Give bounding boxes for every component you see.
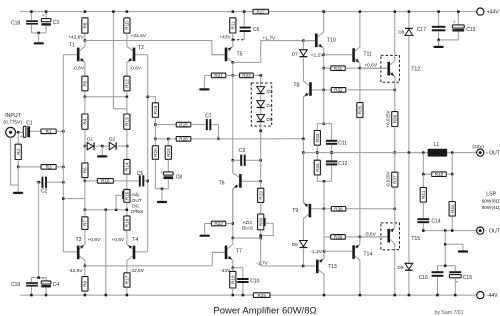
junction L1 right / R42 column	[451, 151, 454, 154]
diode D5	[257, 115, 265, 123]
svg-text:LSP: LSP	[486, 192, 496, 198]
svg-text:T6: T6	[219, 180, 225, 186]
svg-text:Power Amplifier 60W/8Ω: Power Amplifier 60W/8Ω	[213, 306, 316, 316]
wire jack to C1	[16, 131, 24, 133]
svg-text:R6: R6	[83, 167, 88, 173]
svg-text:R29: R29	[258, 191, 263, 200]
svg-text:D3: D3	[266, 89, 272, 95]
wire R31 row to T12 base	[360, 67, 388, 69]
junction R38 row left	[323, 208, 326, 211]
wire output rail after L1	[447, 152, 476, 154]
wire column down to jog	[84, 181, 86, 199]
svg-text:R21: R21	[214, 73, 223, 78]
wire R10 to T2 collector	[126, 33, 128, 46]
capacitor C4	[41, 276, 51, 295]
label Adj. OUT DC Offset	[131, 192, 144, 215]
junction R22 row	[232, 222, 235, 225]
wire T8/T9 emitter link	[302, 139, 304, 153]
ground below R2	[13, 192, 23, 194]
wire D6 to -1.7V row	[302, 249, 304, 267]
svg-text:R22: R22	[214, 221, 223, 226]
junction below diode box	[259, 130, 262, 133]
resistor R37 output sense -	[394, 153, 396, 173]
junction T15 emitter / R37 bottom	[394, 208, 397, 211]
svg-text:R24: R24	[166, 148, 171, 157]
wire T1 collector node to T5 base	[85, 41, 225, 55]
svg-text:+42,6V: +42,6V	[131, 33, 147, 39]
svg-text:T9: T9	[292, 208, 298, 214]
junction T5 collector node	[232, 61, 235, 64]
junction ground tap on C15/C16 column	[444, 243, 447, 246]
junction R3 / input column	[62, 166, 65, 169]
resistor R41	[422, 174, 424, 187]
junction C2 right on input column	[62, 181, 65, 184]
svg-text:C17: C17	[417, 27, 426, 33]
junction R33/C11 tee	[322, 123, 325, 126]
svg-text:T8: T8	[293, 83, 299, 89]
wire ground tap	[445, 243, 463, 245]
junction T14 emitter / R39	[359, 236, 362, 239]
junction input node	[62, 130, 65, 133]
junction R13 feed on top rail	[112, 10, 115, 13]
junction T14 collector on bottom rail	[359, 294, 362, 297]
svg-text:OUT: OUT	[489, 229, 500, 235]
capacitor C9	[233, 155, 261, 166]
diode D7	[300, 50, 308, 58]
svg-text:R10: R10	[125, 21, 130, 30]
wire joining R20/C8 bottoms	[155, 188, 168, 190]
resistor R13	[124, 114, 130, 129]
wire R16 to T4 emitter	[126, 230, 128, 244]
svg-text:R12: R12	[125, 79, 130, 88]
resistor R36 output sense +	[394, 90, 396, 112]
wire R31 column down to R32 row	[323, 68, 325, 90]
wire C5 to feedback column	[144, 180, 147, 182]
capacitor C19	[26, 278, 38, 296]
resistor R29	[260, 181, 262, 188]
resistor R4	[84, 97, 86, 114]
svg-text:T15: T15	[411, 236, 420, 242]
svg-text:R23: R23	[242, 73, 251, 78]
tee wires R34/C12 to column	[317, 165, 331, 181]
wire D7 to T8 collector	[302, 58, 304, 79]
svg-text:C4: C4	[53, 282, 60, 288]
junction R42 on -OUT row	[451, 229, 454, 232]
junction R31 left tee	[322, 67, 325, 70]
junction R34/C12 tee	[323, 180, 326, 183]
resistor R42	[451, 174, 453, 201]
wire R30 to wiper junction	[260, 230, 262, 238]
wire R19 column to R26 row	[154, 125, 156, 139]
junction D8 on output rail	[408, 151, 411, 154]
svg-text:C8: C8	[176, 175, 183, 181]
capacitor C16	[432, 266, 444, 295]
resistor R6	[84, 146, 86, 163]
transistor T1 base wire	[63, 54, 77, 56]
transistor T2	[127, 46, 135, 76]
junction R19b on bottom rail	[232, 294, 235, 297]
resistor R14	[126, 146, 128, 159]
svg-text:R40: R40	[435, 172, 444, 177]
svg-text:-1,2V: -1,2V	[310, 249, 322, 255]
transistor T4 base wire	[135, 251, 147, 253]
resistor R32	[324, 89, 332, 91]
wire R39 row to T15 base	[360, 236, 388, 238]
resistor R10	[124, 18, 130, 33]
junction C4 on bottom rail	[45, 294, 48, 297]
wire R15 to R16	[126, 202, 128, 216]
junction T10 collector on top rail	[322, 10, 325, 13]
svg-text:R14: R14	[125, 162, 130, 171]
svg-text:C16: C16	[419, 275, 428, 281]
wire C7 to feedback rail	[211, 125, 218, 139]
terminal +OUT	[477, 149, 484, 156]
feedback column wire	[147, 55, 149, 252]
wire D2 to T2 column	[117, 145, 127, 147]
junction +1.2V node	[322, 53, 325, 56]
svg-text:L1: L1	[434, 142, 440, 148]
wire joining C19/C4 tops	[31, 277, 46, 279]
junction R30 wiper return	[259, 234, 262, 237]
junction C9 row left	[232, 159, 235, 162]
junction feedback column C5 node	[146, 180, 149, 183]
inductor L1	[428, 149, 448, 157]
transistor T3 base wire	[63, 251, 77, 253]
resistor R19b	[232, 268, 234, 272]
svg-text:R4: R4	[83, 118, 88, 124]
ground below C18/C3	[38, 33, 40, 42]
junction C10 on bottom rail	[242, 294, 245, 297]
junction R19 / R25 row	[154, 123, 157, 126]
wire jack sleeve down	[11, 137, 18, 185]
svg-text:(0,775V): (0,775V)	[3, 119, 22, 125]
junction R32 row left	[322, 89, 325, 92]
terminal -OUT	[477, 227, 484, 234]
diode D9	[405, 263, 413, 271]
resistor R39	[324, 236, 331, 238]
svg-text:ADJ.: ADJ.	[243, 220, 253, 226]
svg-text:-0,025V: -0,025V	[385, 171, 390, 188]
svg-text:OUT: OUT	[489, 151, 500, 157]
transistor T13 base wire	[303, 265, 316, 267]
transistor T1	[77, 41, 85, 77]
transistor T9 base wire	[311, 208, 324, 210]
offset adjust row wire	[85, 209, 127, 211]
bias chain top corner to +1.7V row	[261, 41, 304, 63]
svg-text:+1,2V: +1,2V	[311, 52, 325, 58]
svg-text:-0,6V: -0,6V	[130, 65, 142, 71]
transistor T11 base wire	[324, 54, 353, 56]
junction -1.2V node	[323, 250, 326, 253]
wire T7 collector row to bias chain	[233, 237, 261, 239]
resistor R20	[154, 139, 156, 146]
svg-text:R34: R34	[315, 163, 320, 172]
svg-text:C5: C5	[137, 171, 144, 177]
resistor R35	[359, 68, 361, 102]
transistor T12	[387, 12, 395, 90]
junction R2 top tap	[17, 131, 20, 134]
wire T6 emitter column down	[232, 189, 234, 238]
capacitor C13	[439, 12, 465, 40]
resistor R31	[324, 67, 331, 69]
svg-text:+: +	[456, 280, 459, 285]
svg-text:D4: D4	[266, 103, 272, 109]
junction C19 on bottom rail	[30, 294, 33, 297]
capacitor C7	[206, 119, 212, 130]
junction C14 on -OUT row	[422, 229, 425, 232]
junction T11 collector on top rail	[359, 10, 362, 13]
svg-text:D8: D8	[398, 30, 404, 36]
junction R34 on output rail	[316, 151, 319, 154]
junction T15 collector on bottom rail	[394, 294, 397, 297]
wire D4 to D5	[260, 109, 262, 115]
svg-text:C2: C2	[41, 188, 48, 194]
transistor T8 base wire	[312, 89, 324, 91]
wire R40 columns	[422, 153, 424, 175]
wire R25 row left	[155, 124, 176, 126]
dashed box around T15	[381, 223, 400, 250]
svg-text:R7: R7	[83, 220, 88, 226]
wire C2 column down to C19/C4	[38, 182, 40, 277]
svg-text:R31: R31	[334, 66, 343, 71]
resistor R16	[124, 216, 130, 230]
svg-text:R30: R30	[258, 217, 263, 226]
junction C18/C3 bottom	[37, 32, 40, 35]
transistor T6	[233, 160, 242, 223]
wire -1.7V row to T13 base	[303, 265, 316, 267]
ground below R21	[203, 75, 205, 88]
svg-text:-42,6V: -42,6V	[130, 268, 145, 274]
junction L1 left / R40 column	[422, 151, 425, 154]
diode D3	[257, 87, 265, 95]
svg-text:D6: D6	[292, 242, 298, 248]
junction C7 branch on feedback rail	[217, 138, 220, 141]
wire joining C16/C15 tops	[438, 265, 456, 267]
wire +1.2V node down to R31 row	[323, 55, 325, 68]
junction C11 on output rail	[330, 151, 333, 154]
junction C17 on top rail	[437, 10, 440, 13]
junction on top rail at C18	[30, 10, 33, 13]
svg-text:-42,6V: -42,6V	[68, 268, 83, 274]
dashed box around T12	[381, 55, 400, 82]
junction R8 on top rail	[84, 10, 87, 13]
terminal -44V	[477, 292, 484, 299]
junction offset row to negative rail drop	[105, 209, 108, 212]
svg-text:R37: R37	[392, 175, 397, 184]
svg-text:C9: C9	[239, 148, 246, 154]
junction R24 column on feedback rail	[167, 138, 170, 141]
svg-text:R36: R36	[392, 114, 397, 123]
input base column wire	[62, 55, 64, 252]
wire jog to R19	[148, 97, 156, 103]
svg-text:R19: R19	[230, 275, 235, 284]
junction R6 bottom / R18 row	[84, 180, 87, 183]
svg-text:T5: T5	[237, 52, 243, 58]
svg-text:+1,7V: +1,7V	[262, 35, 276, 41]
transistor T2 base wire	[135, 54, 147, 56]
resistor R38	[324, 208, 331, 210]
svg-text:C12: C12	[338, 161, 347, 167]
junction C15 on bottom rail	[454, 294, 457, 297]
resistor R34	[316, 153, 318, 161]
junction C16/C15 top	[444, 265, 447, 268]
ground between D1 and D2	[101, 146, 103, 155]
resistor R3	[18, 166, 41, 168]
catch diode D9 column	[408, 153, 410, 264]
wire R2 to R3 row	[17, 160, 19, 167]
transistor T3	[77, 244, 85, 266]
wire emitter cross-couple T1-T2	[85, 96, 127, 98]
ground right side	[462, 244, 464, 250]
svg-text:(22V): (22V)	[472, 144, 484, 150]
catch diode D8 column	[408, 12, 410, 28]
input jack J1	[6, 127, 16, 137]
transistor T11	[352, 12, 360, 69]
wire tee down to R38 row	[323, 181, 325, 209]
svg-text:+44V: +44V	[487, 10, 500, 16]
capacitor C1	[20, 126, 30, 139]
junction D6 bottom on -1.7V row	[302, 265, 305, 268]
wire R18 to C5	[113, 180, 138, 182]
resistor R25	[176, 122, 191, 127]
junction output rail start	[302, 151, 305, 154]
transistor T5 base wire	[212, 54, 225, 56]
tee wires to R33 and C11	[317, 124, 331, 140]
resistor R40	[432, 172, 447, 177]
svg-text:C3: C3	[53, 20, 60, 26]
junction R17 on bottom rail	[126, 294, 128, 297]
junction R21 row	[232, 74, 235, 77]
svg-text:R5: R5	[83, 80, 88, 86]
transistor T8	[303, 79, 311, 139]
svg-text:C15: C15	[463, 275, 472, 281]
svg-text:Adj.: Adj.	[132, 192, 140, 198]
junction T3 collector node	[84, 265, 87, 268]
svg-text:OUT: OUT	[132, 198, 142, 204]
wire +1.7V row to T10 base	[303, 40, 315, 42]
junction R12 bottom	[126, 96, 128, 99]
junction drop on bottom rail	[105, 294, 108, 297]
junction on top rail at C3	[45, 10, 48, 13]
transistor T10	[315, 12, 324, 55]
transistor T15 base wire	[360, 236, 388, 238]
wire T3 collector to T7 base jog	[85, 252, 225, 266]
top supply rail +44V	[20, 11, 476, 13]
svg-text:C11: C11	[338, 140, 347, 146]
svg-text:R39: R39	[334, 235, 343, 240]
svg-text:C10: C10	[250, 278, 259, 284]
wire R20 bottom	[154, 159, 156, 189]
wire R13 feed from top rail	[113, 12, 127, 114]
capacitor C6	[240, 12, 251, 40]
trimmer R15	[126, 174, 128, 189]
resistor R7	[84, 210, 86, 217]
svg-text:R16: R16	[125, 218, 130, 227]
svg-text:R1: R1	[46, 129, 52, 134]
transistor T12 base wire	[360, 67, 388, 69]
diode D1	[85, 145, 87, 147]
svg-text:C1: C1	[26, 120, 33, 126]
diode D2	[109, 142, 117, 149]
wire D3 to D4	[260, 95, 262, 101]
wire R38 column down to -1.2V node	[323, 209, 325, 237]
svg-text:C13: C13	[466, 27, 475, 33]
junction ground node R20/C8	[161, 188, 164, 191]
wire D5 down	[260, 123, 262, 161]
junction -43V node	[232, 266, 235, 269]
resistor R27 on top rail	[253, 9, 269, 14]
transistor T9	[303, 153, 311, 220]
wire D1 to ground tap	[95, 145, 109, 147]
resistor R17	[126, 265, 128, 273]
ground below C8	[161, 189, 163, 201]
svg-text:+0,025V: +0,025V	[385, 109, 390, 127]
svg-text:+: +	[485, 150, 488, 155]
svg-text:BIAS: BIAS	[242, 226, 253, 232]
dashed link C6 to +43V node	[233, 39, 244, 41]
wire T5 collector to bias chain	[233, 61, 261, 63]
svg-text:+: +	[160, 170, 163, 175]
capacitor C3	[41, 12, 51, 33]
svg-text:+: +	[20, 134, 23, 139]
bias chain wire to diode box	[260, 75, 262, 86]
transistor T7 base wire	[212, 251, 224, 253]
resistor R22	[205, 223, 212, 225]
svg-text:Offset: Offset	[131, 209, 144, 215]
svg-text:-44V: -44V	[487, 293, 498, 299]
svg-text:-1,7V: -1,7V	[256, 260, 268, 266]
junction D2 / T2 column	[126, 145, 129, 148]
svg-text:R42: R42	[450, 204, 455, 213]
junction R11 on top rail	[232, 10, 235, 13]
svg-text:R25: R25	[179, 122, 188, 127]
svg-text:+: +	[42, 13, 45, 18]
junction R36 on output rail	[394, 151, 397, 154]
resistor R12	[124, 76, 130, 91]
svg-text:T11: T11	[363, 52, 372, 58]
svg-text:C14: C14	[431, 219, 440, 225]
junction T7 collector row	[232, 237, 235, 240]
resistor R24	[167, 139, 169, 146]
bias chain bottom corner to -1.7V row	[261, 238, 304, 266]
resistor R5	[82, 76, 88, 91]
svg-text:R28: R28	[257, 293, 266, 298]
svg-text:R13: R13	[125, 117, 130, 126]
svg-text:D2: D2	[109, 137, 115, 143]
svg-text:T1: T1	[69, 42, 75, 48]
svg-text:R26: R26	[179, 137, 188, 142]
svg-text:90W(4Ω): 90W(4Ω)	[482, 205, 500, 211]
svg-text:R41: R41	[421, 190, 426, 199]
wire jog from base column	[63, 198, 85, 200]
junction trimmer wiper return	[115, 209, 118, 212]
wire R25 to C7	[191, 124, 206, 126]
junction T12 collector on top rail	[394, 10, 397, 13]
resistor R19	[152, 103, 158, 118]
svg-text:T12: T12	[411, 66, 420, 72]
output rail wire	[303, 152, 427, 154]
diode D4	[257, 101, 265, 109]
wire R3 to input column	[56, 166, 63, 168]
svg-text:R19: R19	[153, 105, 158, 114]
wire joining C18 and C3 bottoms	[31, 32, 46, 34]
svg-text:+0,6V: +0,6V	[111, 237, 125, 243]
bias chain wire C9 to T6 base	[260, 160, 262, 181]
svg-text:D5: D5	[266, 117, 272, 123]
svg-text:T13: T13	[328, 264, 337, 270]
junction +43V node	[232, 39, 235, 42]
svg-text:T3: T3	[76, 237, 82, 243]
